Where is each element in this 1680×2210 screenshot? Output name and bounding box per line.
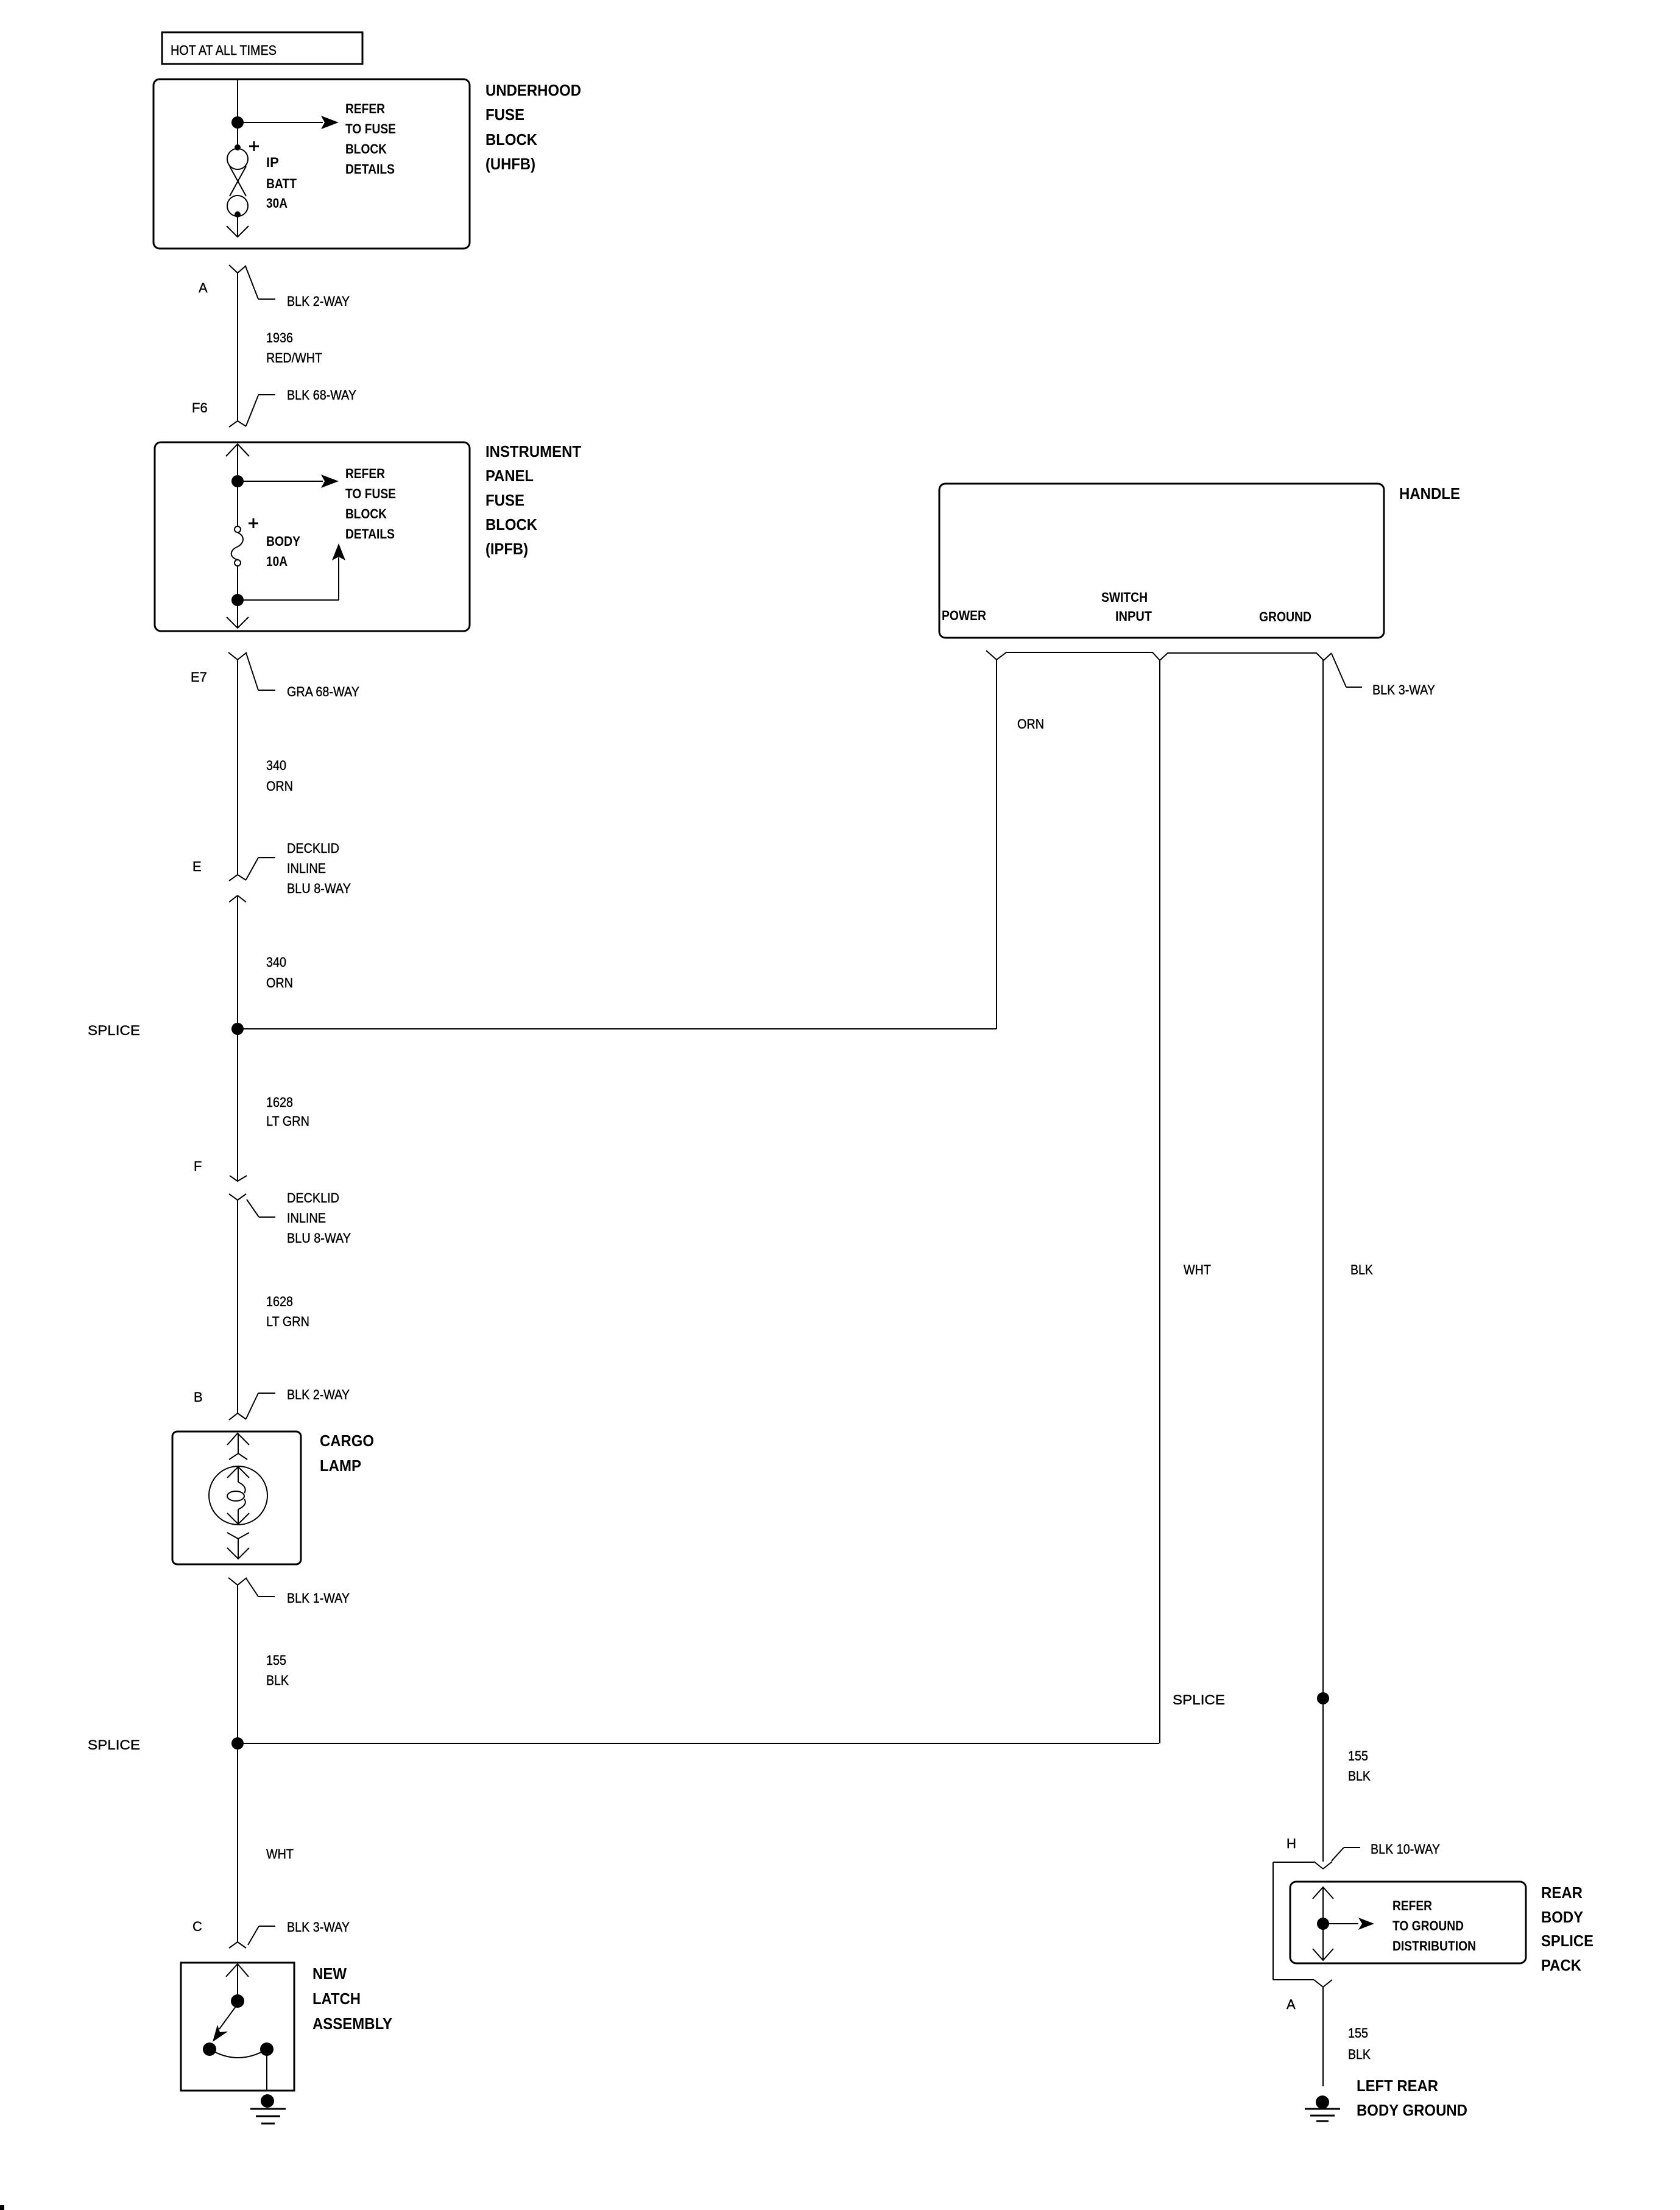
svg-text:NEW: NEW <box>312 1965 347 1983</box>
page corner speck <box>0 2205 4 2210</box>
svg-text:LAMP: LAMP <box>320 1456 361 1475</box>
label NEW LATCH ASSEMBLY <box>312 1965 392 2033</box>
svg-text:TO FUSE: TO FUSE <box>345 121 396 136</box>
connector BLK 1-WAY <box>228 1578 350 1606</box>
svg-text:B: B <box>194 1389 203 1405</box>
wire 340 ORN lower <box>238 895 293 1181</box>
svg-text:E: E <box>192 859 202 874</box>
wire BLK ground <box>1323 660 1373 1862</box>
instrument panel fuse block IPFB box <box>155 442 470 631</box>
svg-text:BLK 10-WAY: BLK 10-WAY <box>1371 1841 1440 1857</box>
svg-text:10A: 10A <box>266 554 288 569</box>
ground latch <box>250 2094 286 2124</box>
switch latch <box>203 1964 274 2091</box>
svg-text:(UHFB): (UHFB) <box>485 155 535 173</box>
svg-text:BLU 8-WAY: BLU 8-WAY <box>287 881 351 896</box>
svg-text:HOT AT ALL TIMES: HOT AT ALL TIMES <box>171 43 277 58</box>
connector B BLK 2-WAY <box>194 1387 350 1420</box>
lamp CARGO LAMP <box>209 1432 374 1559</box>
svg-text:H: H <box>1286 1836 1296 1851</box>
svg-text:LT GRN: LT GRN <box>266 1114 309 1129</box>
wire refer arrow UHFB <box>238 101 396 177</box>
svg-text:BLK 2-WAY: BLK 2-WAY <box>287 294 350 309</box>
svg-text:LT GRN: LT GRN <box>266 1314 309 1329</box>
svg-text:RED/WHT: RED/WHT <box>266 350 322 365</box>
svg-text:340: 340 <box>266 955 286 970</box>
splice 1 <box>88 1023 997 1038</box>
svg-text:30A: 30A <box>266 196 288 211</box>
svg-text:TO GROUND: TO GROUND <box>1392 1918 1464 1933</box>
svg-text:LATCH: LATCH <box>312 1989 361 2008</box>
label INSTRUMENT PANEL FUSE BLOCK (IPFB) <box>485 442 581 558</box>
node junction 2 in IPFB <box>231 566 244 606</box>
node junction in IPFB <box>231 475 244 487</box>
connector A BLK 2-WAY <box>199 265 350 309</box>
svg-text:DETAILS: DETAILS <box>345 526 395 542</box>
svg-text:REAR: REAR <box>1541 1883 1583 1902</box>
splice 2 <box>88 1737 1159 1753</box>
svg-text:HANDLE: HANDLE <box>1399 484 1460 503</box>
wire UHFB output down arrow <box>227 214 249 237</box>
svg-text:F6: F6 <box>192 400 208 415</box>
connector handle 3-way row <box>986 651 1435 697</box>
wire WHT switch input <box>1160 660 1211 1743</box>
node junction in UHFB <box>231 116 244 129</box>
fuse BODY 10A <box>231 481 301 569</box>
svg-text:BATT: BATT <box>266 176 297 191</box>
svg-text:INSTRUMENT: INSTRUMENT <box>485 442 581 461</box>
wire 155 BLK right lower <box>1323 1987 1371 2086</box>
handle box <box>939 484 1384 638</box>
label HOT AT ALL TIMES box <box>162 32 362 64</box>
svg-text:IP: IP <box>266 155 279 170</box>
connector C BLK 3-WAY <box>192 1919 350 1948</box>
svg-text:F: F <box>194 1159 202 1174</box>
svg-text:BODY GROUND: BODY GROUND <box>1357 2101 1467 2119</box>
svg-text:BLOCK: BLOCK <box>345 506 387 521</box>
svg-text:DETAILS: DETAILS <box>345 161 395 177</box>
svg-text:REFER: REFER <box>345 466 385 481</box>
rear body splice pack box <box>1290 1882 1526 1963</box>
splice 3 <box>1173 1692 1329 1707</box>
svg-text:BLK 68-WAY: BLK 68-WAY <box>287 387 356 403</box>
label REAR BODY SPLICE PACK <box>1541 1883 1594 1974</box>
label UNDERHOOD FUSE BLOCK (UHFB) <box>485 81 581 173</box>
svg-text:155: 155 <box>1348 1748 1368 1763</box>
svg-text:WHT: WHT <box>266 1846 294 1862</box>
svg-text:BLK 3-WAY: BLK 3-WAY <box>287 1919 350 1935</box>
svg-text:BLK 1-WAY: BLK 1-WAY <box>287 1590 350 1606</box>
svg-text:DECKLID: DECKLID <box>287 841 339 856</box>
svg-text:PACK: PACK <box>1541 1956 1581 1974</box>
svg-text:SPLICE: SPLICE <box>1541 1932 1594 1950</box>
svg-text:BLK: BLK <box>1350 1262 1373 1277</box>
svg-text:SWITCH: SWITCH <box>1101 590 1148 605</box>
svg-text:BLK: BLK <box>1348 2047 1371 2062</box>
wire 155 BLK right upper <box>1348 1748 1371 1784</box>
svg-text:LEFT REAR: LEFT REAR <box>1357 2077 1438 2095</box>
connector E DECKLID INLINE BLU 8-WAY <box>192 841 351 902</box>
svg-text:SPLICE: SPLICE <box>88 1023 140 1038</box>
wire refer arrow IPFB <box>238 466 396 542</box>
svg-text:BLOCK: BLOCK <box>485 515 537 534</box>
wire 340 ORN upper <box>238 660 293 875</box>
svg-text:BODY: BODY <box>1541 1908 1583 1926</box>
label LEFT REAR BODY GROUND <box>1357 2077 1467 2119</box>
svg-text:INPUT: INPUT <box>1115 609 1152 624</box>
svg-text:A: A <box>199 280 208 295</box>
svg-text:155: 155 <box>266 1653 286 1668</box>
svg-text:INLINE: INLINE <box>287 861 326 876</box>
svg-text:ASSEMBLY: ASSEMBLY <box>312 2014 392 2033</box>
svg-text:INLINE: INLINE <box>287 1210 326 1226</box>
new latch assembly box <box>181 1963 294 2091</box>
connector A rear <box>1286 1980 1332 2012</box>
pin labels POWER SWITCH INPUT GROUND <box>942 590 1311 624</box>
circuit breaker IP BATT 30A <box>227 141 297 217</box>
svg-text:ORN: ORN <box>266 778 293 794</box>
wire UHFB feed <box>237 80 238 147</box>
svg-text:ORN: ORN <box>266 975 293 990</box>
svg-text:BLK: BLK <box>266 1673 289 1688</box>
svg-text:BODY: BODY <box>266 534 300 549</box>
svg-text:REFER: REFER <box>345 101 385 116</box>
svg-text:1628: 1628 <box>266 1294 293 1309</box>
svg-text:UNDERHOOD: UNDERHOOD <box>485 81 581 99</box>
wire 1936 RED/WHT <box>238 273 322 421</box>
svg-text:(IPFB): (IPFB) <box>485 540 528 558</box>
wire ORN power <box>997 660 1044 1029</box>
connector F DECKLID INLINE BLU 8-WAY <box>194 1159 351 1246</box>
svg-text:E7: E7 <box>191 669 207 685</box>
svg-text:155: 155 <box>1348 2025 1368 2041</box>
svg-text:FUSE: FUSE <box>485 491 524 509</box>
connector F6 BLK 68-WAY <box>192 387 356 427</box>
svg-text:A: A <box>1286 1997 1296 2012</box>
svg-text:BLK 3-WAY: BLK 3-WAY <box>1372 682 1435 697</box>
connector E7 GRA 68-WAY <box>191 652 359 699</box>
svg-text:POWER: POWER <box>942 608 986 623</box>
svg-text:DISTRIBUTION: DISTRIBUTION <box>1392 1938 1476 1954</box>
wire 1628 LT GRN lower <box>238 1200 309 1413</box>
svg-text:C: C <box>192 1919 202 1934</box>
svg-text:BLOCK: BLOCK <box>345 141 387 157</box>
svg-text:340: 340 <box>266 758 286 773</box>
pin arrow IPFB top <box>226 444 249 481</box>
svg-text:BLU 8-WAY: BLU 8-WAY <box>287 1230 351 1246</box>
svg-text:GROUND: GROUND <box>1259 609 1311 624</box>
svg-text:BLK: BLK <box>1348 1768 1371 1784</box>
svg-text:DECKLID: DECKLID <box>287 1190 339 1206</box>
svg-text:WHT: WHT <box>1184 1262 1211 1277</box>
cargo lamp box <box>172 1432 301 1564</box>
svg-text:REFER: REFER <box>1392 1898 1432 1913</box>
connector H BLK 10-WAY <box>1286 1836 1440 1869</box>
wire 155 BLK left <box>238 1585 289 1942</box>
connector bracket 10-way <box>1273 1862 1314 1980</box>
svg-text:PANEL: PANEL <box>485 467 534 485</box>
svg-text:TO FUSE: TO FUSE <box>345 486 396 501</box>
svg-text:GRA 68-WAY: GRA 68-WAY <box>287 684 359 699</box>
wire 1628 LT GRN upper <box>266 1095 309 1129</box>
svg-text:CARGO: CARGO <box>320 1432 374 1450</box>
svg-text:BLOCK: BLOCK <box>485 130 537 149</box>
svg-text:1936: 1936 <box>266 330 293 345</box>
svg-text:SPLICE: SPLICE <box>88 1737 140 1753</box>
svg-text:BLK 2-WAY: BLK 2-WAY <box>287 1387 350 1402</box>
splice pack internals <box>1313 1887 1476 1960</box>
svg-text:1628: 1628 <box>266 1095 293 1110</box>
pin arrow IPFB bottom <box>227 600 249 628</box>
svg-text:ORN: ORN <box>1017 716 1044 732</box>
svg-text:FUSE: FUSE <box>485 105 524 124</box>
underhood fuse block UHFB box <box>154 79 470 249</box>
svg-text:SPLICE: SPLICE <box>1173 1692 1225 1707</box>
ground left rear body <box>1305 2095 1340 2121</box>
wire up arrow to details IPFB <box>238 543 345 600</box>
